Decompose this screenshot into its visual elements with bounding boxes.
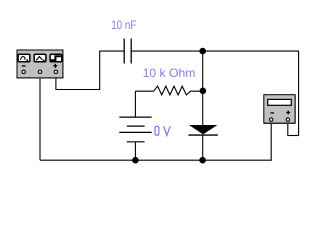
multimeter XMM1 — [264, 95, 296, 124]
wire — [100, 50, 124, 52]
triangle button — [34, 54, 46, 62]
wire — [287, 121, 289, 136]
node B (resistor-diode junction) — [200, 88, 207, 95]
terminal - — [22, 70, 25, 73]
node D (battery-bottom junction) — [132, 157, 139, 164]
display — [268, 99, 292, 105]
wire — [132, 50, 299, 52]
sine button — [18, 54, 30, 62]
node C (diode-bottom junction) — [199, 157, 206, 164]
diode D1 — [188, 125, 218, 135]
resistor R1 — [135, 86, 202, 95]
minus label — [270, 112, 274, 113]
wire — [298, 51, 300, 136]
terminal - — [270, 118, 273, 121]
wire — [99, 51, 101, 90]
wire — [202, 51, 204, 125]
wire — [270, 121, 272, 161]
plus label — [286, 111, 290, 115]
square button — [50, 54, 62, 62]
wire — [56, 89, 100, 91]
wire — [134, 142, 136, 160]
plus label — [53, 64, 57, 68]
wire — [55, 78, 57, 91]
svg-text:10 nF: 10 nF — [111, 18, 136, 32]
label 0 V — [155, 126, 170, 135]
wire — [288, 135, 299, 137]
node A (top junction) — [199, 48, 206, 55]
terminal + — [286, 118, 289, 121]
terminal common — [38, 70, 41, 73]
minus label — [22, 65, 26, 66]
wire — [40, 159, 271, 161]
svg-text:10 k Ohm: 10 k Ohm — [143, 66, 196, 80]
wire — [134, 91, 136, 117]
terminal + — [54, 70, 57, 73]
wire — [202, 135, 204, 160]
function generator XFG1 — [17, 50, 63, 78]
battery V1 — [119, 117, 151, 142]
wire — [39, 78, 41, 161]
capacitor C1 — [124, 39, 131, 64]
